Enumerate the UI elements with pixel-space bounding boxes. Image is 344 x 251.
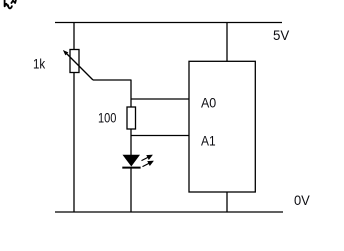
wire: IC bottom to 0V rail xyxy=(226,192,228,212)
wire: LED cathode to 0V rail xyxy=(130,168,132,212)
svg-text:5V: 5V xyxy=(273,27,290,43)
wire: 0V bottom rail xyxy=(55,211,283,213)
wire: resistor bottom to A1 node and LED anode xyxy=(130,129,132,155)
LED D1 cathode bar xyxy=(122,167,140,169)
svg-text:0V: 0V xyxy=(294,192,310,208)
potentiometer VR1 wiper arrow xyxy=(63,50,93,80)
wire: wiper horizontal run xyxy=(93,79,132,81)
svg-text:A0: A0 xyxy=(201,95,216,111)
wire: 5V rail to potentiometer top xyxy=(73,23,75,51)
svg-text:A1: A1 xyxy=(201,133,216,149)
scribble artifact (decorative) xyxy=(5,0,16,8)
LED D1 triangle xyxy=(123,155,141,167)
wire: 5V top rail xyxy=(55,22,282,24)
wire: A0 node to IC pin A0 xyxy=(131,98,189,100)
wire: 5V rail to IC top xyxy=(226,23,228,62)
IC U1 body xyxy=(189,61,255,192)
LED D1 light arrows xyxy=(142,155,153,166)
wire: A1 node to IC pin A1 xyxy=(131,135,189,137)
resistor R1 body xyxy=(127,107,136,129)
svg-text:100: 100 xyxy=(98,111,116,126)
wire: potentiometer bottom to 0V rail xyxy=(73,73,75,213)
svg-text:1k: 1k xyxy=(33,57,45,72)
wire: wiper down to A0 node xyxy=(130,80,132,107)
potentiometer VR1 body xyxy=(70,50,79,73)
